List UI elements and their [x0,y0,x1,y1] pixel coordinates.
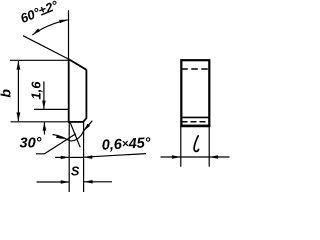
svg-text:S: S [71,165,80,179]
svg-text:b: b [0,89,13,98]
svg-text:1,6: 1,6 [29,81,44,100]
svg-text:30°: 30° [20,136,42,152]
